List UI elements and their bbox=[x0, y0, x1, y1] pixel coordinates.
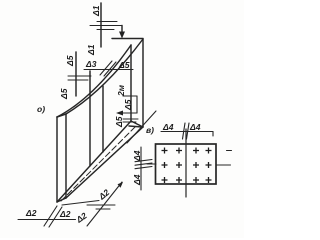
delta2 slash 2 bbox=[49, 207, 62, 227]
delta2 slash 1 bbox=[44, 206, 57, 226]
figure v left dim line bbox=[140, 147, 142, 190]
figure v top dim line bbox=[161, 131, 213, 133]
svg-text:Δ1: Δ1 bbox=[86, 44, 96, 56]
delta1 tick 1 bbox=[97, 21, 117, 23]
svg-text:о): о) bbox=[37, 104, 45, 114]
delta2 horizontal dim line bbox=[18, 219, 76, 221]
svg-text:Δ2: Δ2 bbox=[96, 187, 111, 202]
delta2 second diag dim line bbox=[87, 182, 122, 226]
delta2 diag tick 2 bbox=[96, 208, 110, 210]
delta5 tick 1 bbox=[68, 75, 91, 77]
svg-text:в): в) bbox=[146, 125, 154, 135]
svg-text:Δ5: Δ5 bbox=[118, 60, 130, 70]
plus marks grid bbox=[162, 148, 212, 184]
2m lower tick 1 bbox=[123, 118, 138, 120]
svg-text:Δ5: Δ5 bbox=[123, 99, 133, 111]
delta2 shallow extension line bbox=[62, 201, 99, 206]
figure v left slash 2 bbox=[135, 163, 152, 165]
svg-text:Δ1: Δ1 bbox=[91, 5, 101, 17]
figure v top dim end tick bbox=[212, 132, 214, 137]
figure v left slash 1 bbox=[135, 160, 152, 162]
panel front top edge bbox=[57, 45, 131, 117]
svg-text:2м: 2м bbox=[116, 84, 126, 97]
figure v top slash 2 bbox=[187, 123, 190, 139]
2m lower tick 2 bbox=[123, 121, 136, 123]
figure v left axis stub bbox=[147, 163, 156, 165]
panel front bottom edge bbox=[57, 121, 131, 202]
panel back top edge bbox=[66, 39, 143, 114]
panel bottom center dash line bbox=[61, 125, 137, 201]
svg-text:Δ3: Δ3 bbox=[85, 59, 97, 69]
svg-text:Δ5: Δ5 bbox=[114, 116, 124, 128]
dim line delta1 vertical bbox=[100, 3, 102, 47]
panel left end bottom edge bbox=[57, 198, 66, 202]
figure v right dash mark bbox=[227, 150, 232, 152]
2m bracket arrowhead bbox=[116, 111, 123, 116]
panel right end front edge bbox=[130, 45, 132, 121]
leader line to view v bbox=[127, 111, 156, 143]
delta1 leader drop bbox=[121, 26, 123, 34]
panel right end top tick bbox=[112, 38, 143, 40]
2m bracket bottom arrow line bbox=[119, 112, 137, 114]
panel back bottom edge bbox=[66, 127, 143, 198]
figure v right axis stub bbox=[216, 164, 231, 166]
2m bracket top bbox=[123, 95, 137, 97]
svg-text:Δ4: Δ4 bbox=[162, 122, 174, 132]
delta2 diag tick 1 bbox=[87, 204, 115, 206]
opening edge left bbox=[89, 71, 91, 166]
panel left end top edge bbox=[57, 114, 66, 117]
delta2 diag arrowhead bbox=[118, 182, 124, 188]
delta1 tick 2 bbox=[90, 25, 122, 27]
figure v rectangle bbox=[156, 144, 217, 184]
panel right end bottom edge bbox=[129, 126, 142, 127]
delta3 dim line bbox=[84, 69, 133, 71]
panel right end back edge bbox=[142, 39, 144, 127]
svg-text:Δ4: Δ4 bbox=[189, 122, 201, 132]
panel left end back edge bbox=[65, 114, 67, 198]
svg-text:Δ2: Δ2 bbox=[59, 209, 71, 219]
svg-text:Δ4: Δ4 bbox=[132, 150, 142, 162]
svg-text:Δ5: Δ5 bbox=[65, 55, 75, 67]
dim line delta5 vertical upper left bbox=[75, 52, 77, 96]
delta3 slash 2 bbox=[104, 62, 116, 76]
svg-text:Δ2: Δ2 bbox=[25, 208, 37, 218]
delta3 slash 1 bbox=[100, 61, 112, 75]
figure v vertical axis bbox=[185, 129, 187, 197]
figure v left slash 3 bbox=[135, 167, 152, 169]
svg-text:Δ2: Δ2 bbox=[74, 210, 89, 225]
panel right end bottom slant bbox=[131, 121, 143, 127]
delta1 leader arrowhead bbox=[119, 32, 125, 39]
2m bracket right bbox=[136, 96, 138, 113]
panel left end front edge bbox=[56, 117, 58, 202]
svg-text:Δ4: Δ4 bbox=[132, 174, 142, 186]
delta5 tick 2 bbox=[68, 79, 88, 81]
figure v top slash 1 bbox=[183, 123, 186, 139]
delta1 tick 3 bbox=[97, 29, 114, 31]
opening edge right bbox=[102, 86, 104, 152]
svg-text:Δ5: Δ5 bbox=[59, 88, 69, 100]
